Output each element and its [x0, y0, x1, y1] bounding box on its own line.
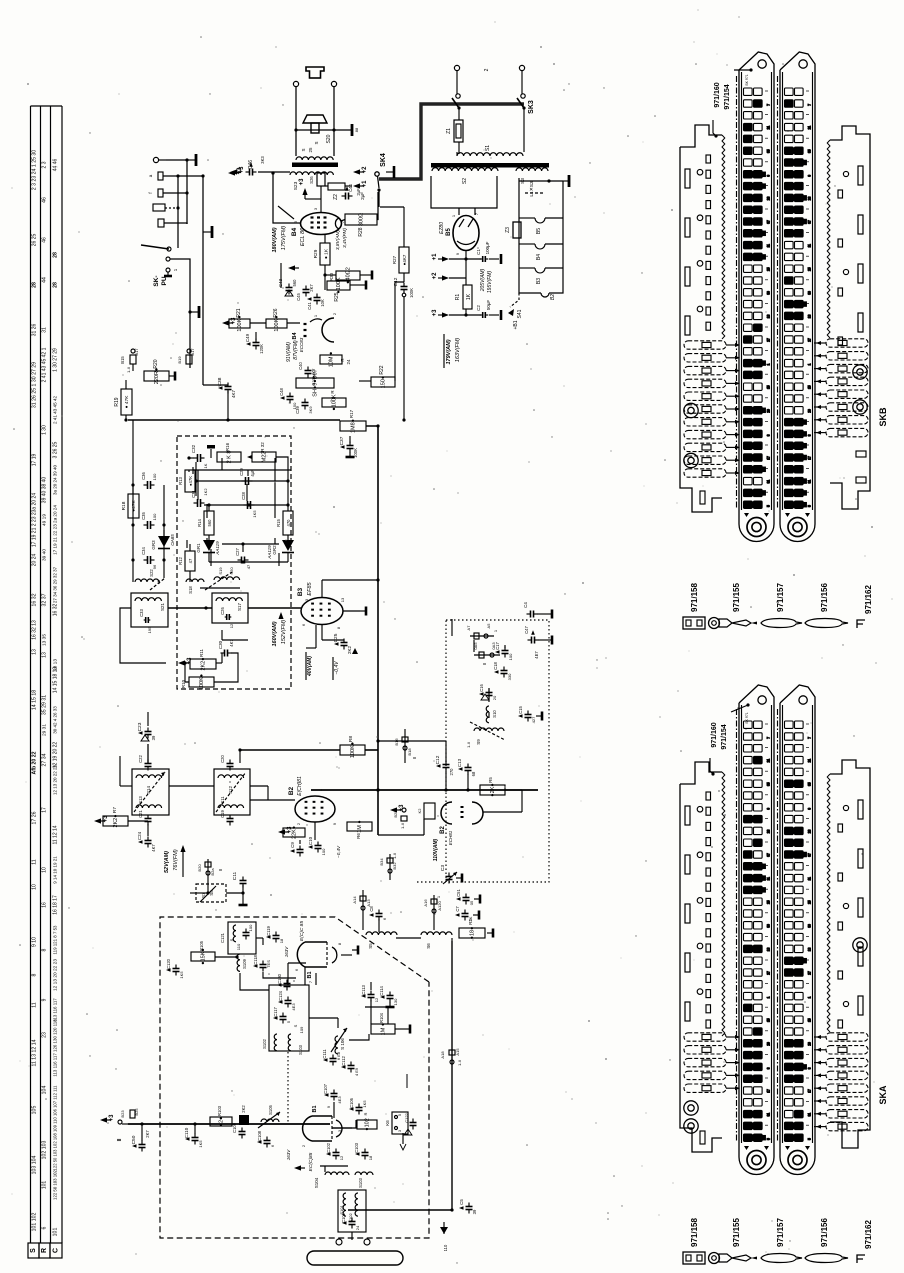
svg-text:3,4V(FM): 3,4V(FM): [342, 228, 348, 248]
svg-text:C37: C37: [339, 436, 345, 445]
svg-text:L1✕S3: L1✕S3: [529, 181, 535, 197]
coil S106 tuning: [335, 1036, 338, 1054]
ground: [443, 1222, 445, 1234]
svg-text:7: 7: [767, 104, 771, 106]
svg-text:195V(FM): 195V(FM): [487, 271, 493, 294]
svg-text:R11: R11: [199, 649, 204, 657]
svg-text:37: 37: [808, 853, 812, 857]
svg-text:150●: 150●: [381, 376, 387, 389]
capacitor C1 100uF: [482, 256, 484, 262]
svg-text:● 1K: ● 1K: [324, 248, 330, 259]
wire: [321, 624, 323, 640]
svg-text:39: 39: [808, 291, 812, 295]
svg-text:17: 17: [767, 456, 771, 460]
svg-text:ECH81: ECH81: [448, 830, 453, 845]
svg-text:M22: M22: [262, 452, 268, 463]
svg-text:+1: +1: [432, 253, 438, 261]
svg-text:8: 8: [32, 973, 38, 976]
svg-text:●102: ●102: [365, 1118, 371, 1131]
svg-text:C1: C1: [476, 249, 481, 255]
SKA left plate lower slots: [700, 1131, 705, 1144]
capacitor C111 6E8: [330, 1058, 337, 1060]
svg-text:S9: S9: [476, 739, 481, 745]
wire B1a grid down: [304, 967, 306, 985]
svg-text:R30: R30: [329, 272, 334, 281]
wire IF link: [169, 785, 214, 787]
svg-text:119 121 8 7 53: 119 121 8 7 53: [53, 925, 58, 955]
node S column label box: [28, 1243, 39, 1258]
svg-text:21: 21: [767, 759, 771, 763]
SKA right plate slots: [858, 800, 863, 819]
capacitor C113 12: [368, 994, 375, 996]
SKB left plate pins: [706, 155, 711, 163]
svg-text:C35: C35: [141, 511, 146, 519]
arrow +2 supply: [442, 275, 449, 280]
capacitor C108 6: [264, 1140, 271, 1142]
wire R105 to S109: [215, 956, 237, 958]
wire B3 screen up: [321, 580, 323, 597]
svg-text:●2●: ●2●: [219, 1117, 225, 1127]
capacitor C120 1K5: [173, 968, 180, 970]
SKB right plate slots: [858, 166, 863, 185]
svg-text:1-II: 1-II: [126, 367, 131, 373]
pin A14 A13: [362, 890, 364, 916]
svg-text:12 19 20 22: 12 19 20 22: [53, 742, 59, 769]
wire 180V feed diagonal: [278, 206, 294, 219]
svg-text:S103: S103: [298, 1044, 303, 1054]
resistor R27b 4K7: [399, 247, 409, 273]
svg-text:1-II: 1-II: [457, 1060, 462, 1066]
capacitor C37 100K: [347, 445, 354, 447]
tube B3 EF85: [301, 598, 343, 625]
capacitor C15: [525, 714, 532, 716]
arrow +1 tap: [353, 183, 360, 188]
SKA right plate ring terminal: [853, 938, 867, 952]
wire heavy mains run: [379, 104, 524, 179]
svg-text:220R●: 220R●: [154, 368, 160, 384]
capacitor C50: [139, 1144, 146, 1146]
SKA right plate solder lugs: [826, 1033, 868, 1041]
svg-text:● 47K: ● 47K: [124, 395, 130, 409]
ground small bar: [207, 445, 215, 449]
svg-text:39 40: 39 40: [42, 549, 48, 561]
svg-text:GR3: GR3: [151, 540, 156, 550]
speaker cone: [303, 115, 327, 123]
svg-text:Z2: Z2: [333, 194, 339, 200]
wire main left bus: [202, 176, 204, 385]
svg-text:C36: C36: [141, 471, 146, 479]
wire C27 link: [242, 544, 244, 552]
svg-text:+3: +3: [239, 166, 245, 174]
capacitor C102 12: [333, 1152, 340, 1154]
SKB right plate ring terminal: [853, 365, 867, 379]
svg-text:5: 5: [767, 505, 771, 507]
SKA strip B top hole: [799, 696, 807, 704]
wire A16 coil: [433, 918, 435, 930]
svg-text:52V(AM): 52V(AM): [164, 851, 170, 873]
resistor R14 560: [204, 511, 214, 535]
svg-text:23: 23: [767, 829, 771, 833]
resistor R19 47K: [121, 389, 132, 415]
wire detector rail top: [193, 469, 291, 471]
svg-text:C34: C34: [141, 546, 146, 554]
svg-text:R25: R25: [334, 292, 340, 301]
svg-text:3: 3: [808, 1067, 812, 1069]
svg-text:R104: R104: [379, 1012, 384, 1023]
svg-text:11 12 14: 11 12 14: [53, 825, 59, 844]
svg-text:12: 12: [374, 997, 379, 1002]
svg-text:1M8●: 1M8●: [351, 419, 357, 433]
arrow +B1: [508, 309, 514, 316]
svg-text:EC(C)85: EC(C)85: [308, 1152, 314, 1171]
svg-text:Z3: Z3: [505, 227, 511, 233]
svg-text:S14: S14: [146, 786, 151, 795]
SKB left plate ring terminal: [684, 403, 698, 417]
capacitor C42: [401, 286, 408, 288]
svg-text:ECC83: ECC83: [299, 337, 304, 352]
svg-text:C111: C111: [322, 1049, 327, 1059]
svg-text:9 10: 9 10: [32, 937, 38, 947]
svg-text:3 26 25: 3 26 25: [53, 441, 59, 458]
svg-text:C27: C27: [235, 547, 240, 555]
svg-text:1-II: 1-II: [466, 742, 471, 748]
resistor R15 470: [283, 511, 293, 535]
svg-text:101: 101: [42, 1181, 48, 1190]
svg-text:101 102: 101 102: [32, 1213, 38, 1232]
svg-text:470: 470: [286, 519, 291, 527]
svg-text:1-II: 1-II: [400, 823, 405, 829]
capacitor C16 20: [486, 692, 493, 694]
wire +3 feed: [320, 186, 322, 212]
wire B1a cathode to box: [315, 973, 317, 985]
svg-text:K6: K6: [385, 1120, 390, 1126]
svg-text:C7: C7: [455, 906, 460, 912]
ground: [169, 375, 175, 377]
SKA strip A bottom ring: [739, 1145, 774, 1175]
wire: [449, 314, 481, 316]
svg-text:1M ●: 1M ●: [381, 1023, 387, 1036]
svg-text:35: 35: [808, 782, 812, 786]
wire: [258, 171, 290, 173]
svg-text:17: 17: [42, 807, 48, 813]
svg-text:87V(FM): 87V(FM): [293, 340, 299, 360]
SKA strip B outline: [779, 703, 781, 1145]
svg-text:●18●: ●18●: [470, 927, 476, 940]
coil S110 C121: [228, 922, 256, 954]
resistor R8 100K box: [340, 745, 365, 755]
svg-text:35: 35: [808, 149, 812, 153]
svg-text:10: 10: [42, 867, 48, 873]
svg-text:5: 5: [398, 1114, 402, 1116]
svg-text:+3: +3: [399, 804, 405, 812]
svg-text:101: 101: [53, 1228, 59, 1237]
svg-text:S26: S26: [309, 176, 314, 184]
svg-text:100: 100: [321, 848, 326, 855]
main tuning line: [128, 1123, 330, 1125]
node R column label box: [39, 1243, 50, 1258]
capacitor C107 4E3: [331, 1093, 338, 1095]
svg-text:1: 1: [808, 363, 812, 365]
svg-text:971/154: 971/154: [721, 724, 728, 749]
svg-text:29: 29: [767, 1042, 771, 1046]
wire B3 anode right: [343, 610, 360, 612]
wire rail 481: [196, 480, 288, 482]
svg-text:1K5: 1K5: [252, 510, 257, 518]
svg-text:R22: R22: [379, 365, 385, 374]
capacitor C40: [305, 370, 312, 372]
svg-text:C5: C5: [459, 1199, 464, 1205]
svg-text:15: 15: [808, 385, 812, 389]
node mains terminal: [454, 65, 459, 70]
svg-text:C29: C29: [239, 467, 244, 475]
wire S14 top to C23: [147, 744, 149, 763]
tube B4 triode section: [322, 318, 334, 342]
capacitor C101 24: [349, 1221, 356, 1223]
diode GR2 AA119: [287, 535, 289, 540]
resistor R27 box: [322, 398, 346, 407]
svg-text:S10: S10: [492, 710, 497, 718]
wire heater taps: [519, 217, 535, 219]
wire B4 cathode: [324, 234, 326, 243]
svg-text:22K●: 22K●: [292, 826, 298, 839]
svg-text:GR2: GR2: [272, 545, 277, 555]
dotted wire: [417, 881, 446, 883]
svg-text:C13: C13: [457, 758, 462, 767]
capacitor C22: [145, 763, 152, 765]
svg-text:1 30: 1 30: [42, 425, 48, 435]
svg-text:PU: PU: [161, 276, 168, 285]
SKA strip A outline: [738, 703, 740, 1145]
svg-text:−0,4V: −0,4V: [336, 845, 341, 858]
wire R14 GR1 chain: [206, 504, 208, 518]
wire: [523, 108, 525, 152]
svg-text:SKB: SKB: [878, 407, 888, 427]
svg-text:31: 31: [42, 327, 48, 333]
svg-text:10: 10: [32, 884, 38, 890]
svg-text:29 31: 29 31: [42, 724, 48, 736]
AM det left rail: [132, 485, 134, 582]
node aerial pin 4: [153, 204, 165, 211]
wire osc pins: [473, 640, 475, 652]
svg-text:7: 7: [808, 737, 812, 739]
resistor R102 box: [357, 1120, 377, 1129]
dial pointer pill: [307, 1251, 403, 1265]
coil S104 S103: [325, 1172, 349, 1175]
svg-text:11: 11: [767, 244, 771, 248]
pin B34 B32: [389, 854, 391, 880]
wire rail 562: [209, 561, 288, 563]
svg-text:C101: C101: [341, 1212, 346, 1223]
svg-text:S102: S102: [262, 1038, 267, 1048]
svg-text:175V(FM): 175V(FM): [281, 226, 287, 251]
svg-text:10K: 10K: [320, 299, 325, 307]
svg-text:18: 18: [368, 1155, 373, 1160]
svg-text:C3: C3: [440, 865, 446, 871]
capacitor C11: [240, 880, 247, 882]
svg-text:122 50 103 102: 122 50 103 102: [53, 1169, 58, 1199]
svg-text:C23: C23: [137, 722, 143, 731]
node speaker terminal right: [331, 81, 336, 86]
SKB right plate ring terminal: [853, 400, 867, 414]
resistor R29 1K: [320, 243, 330, 265]
SKA left plate pins: [706, 792, 711, 800]
svg-text:26 25: 26 25: [32, 234, 38, 247]
svg-text:+3: +3: [432, 309, 438, 317]
wire C12 bus up: [445, 741, 447, 762]
resistor R1 1K: [463, 285, 472, 309]
svg-text:560: 560: [292, 279, 297, 287]
svg-text:31 26: 31 26: [32, 324, 38, 337]
svg-text:3K3: 3K3: [260, 156, 265, 164]
svg-text:113 116 117 126 130 120 118: 113 116 117 126 130 120 118: [53, 1019, 58, 1077]
wire K6 to line: [397, 1124, 399, 1128]
svg-text:2 3 23 24 1 25 30: 2 3 23 24 1 25 30: [32, 150, 38, 190]
svg-text:OA85: OA85: [170, 534, 175, 546]
wire leader ska: [731, 705, 748, 712]
wire: [226, 892, 243, 894]
wire R15 GR2 chain: [274, 458, 276, 518]
svg-text:ECL 86: ECL 86: [300, 227, 306, 246]
capacitor C47 4E7: [531, 637, 533, 644]
svg-text:100: 100: [248, 924, 253, 931]
wire B3 cathode down: [315, 625, 317, 648]
label 52V pins B20: [207, 859, 209, 880]
svg-text:160V(AM): 160V(AM): [272, 621, 278, 646]
capacitor C124 4E3: [285, 1000, 292, 1002]
capacitor C49: [253, 342, 260, 344]
svg-text:16: 16: [42, 902, 48, 908]
diode network R23: [296, 378, 334, 388]
svg-text:17 19 21 22 23 2a 20 24: 17 19 21 22 23 2a 20 24: [53, 505, 58, 555]
SKB strip A bottom ring: [739, 512, 774, 542]
pin A16 A120: [433, 895, 435, 918]
SKA strip A contact cells: [744, 721, 771, 1141]
SKB left plate ring terminal: [684, 453, 698, 467]
svg-text:13: 13: [32, 649, 38, 655]
capacitor C12 270: [443, 764, 450, 766]
svg-text:B18: B18: [407, 748, 412, 756]
wire R12 top: [189, 544, 191, 551]
arrow +3 up: [302, 188, 307, 195]
svg-text:C117: C117: [273, 1006, 278, 1016]
wire det right rail: [276, 457, 288, 481]
svg-text:AA119: AA119: [267, 545, 272, 560]
svg-text:5: 5: [808, 505, 812, 507]
svg-text:971/156: 971/156: [820, 1218, 829, 1247]
svg-text:14 15 18: 14 15 18: [32, 690, 38, 710]
svg-text:12: 12: [229, 623, 234, 628]
svg-text:R: R: [363, 1112, 368, 1115]
svg-text:C113: C113: [361, 984, 366, 994]
svg-text:3: 3: [767, 434, 771, 436]
capacitor C48 150: [287, 396, 294, 398]
capacitor C25 2K2: [341, 642, 348, 644]
svg-text:3K9: 3K9: [308, 406, 313, 414]
resistor Z2: [328, 183, 345, 190]
svg-text:971/162: 971/162: [864, 1220, 873, 1249]
svg-text:1K5: 1K5: [362, 1100, 367, 1108]
svg-text:2 K 8: 2 K 8: [227, 451, 233, 464]
svg-text:C130: C130: [277, 973, 282, 984]
svg-text:27: 27: [767, 338, 771, 342]
wire: [165, 207, 178, 209]
svg-text:R20: R20: [153, 359, 159, 368]
svg-text:R8: R8: [348, 736, 354, 742]
svg-text:SKA: SKA: [878, 1085, 888, 1105]
capacitor C29 4uF: [245, 477, 247, 485]
svg-text:C26: C26: [220, 606, 225, 614]
svg-text:C9: C9: [290, 842, 295, 848]
svg-text:100K: 100K: [409, 288, 414, 298]
svg-text:30 42 4 26 33: 30 42 4 26 33: [53, 706, 58, 734]
svg-text:100K●: 100K●: [199, 674, 205, 690]
svg-text:17: 17: [767, 1089, 771, 1093]
wire B2 to S12 box: [250, 799, 268, 801]
wire: [164, 223, 187, 224]
SKA strip B hinge line: [777, 709, 779, 1141]
tube B2 ECH81 heptode: [295, 796, 335, 822]
svg-text:2K2●: 2K2●: [201, 657, 207, 670]
resistor R21 100K: [229, 319, 250, 328]
svg-text:R6: R6: [356, 833, 361, 839]
tube B1 ECC85 half a: [297, 942, 305, 967]
svg-text:A7: A7: [466, 625, 471, 631]
svg-text:17: 17: [808, 1089, 812, 1093]
wire osc box to C4: [451, 619, 453, 636]
wire speaker line: [296, 129, 352, 131]
SKB left plate slots: [685, 169, 690, 188]
svg-text:C2: C2: [476, 305, 481, 311]
resistor R12 47: [185, 551, 195, 571]
SKB strip B contact cells: [785, 88, 812, 508]
svg-text:E(CH)81: E(CH)81: [297, 776, 303, 796]
wire rectifier output: [465, 250, 467, 259]
svg-text:18 13: 18 13: [53, 659, 59, 671]
svg-text:9: 9: [808, 175, 812, 177]
resistor R16 2K8: [217, 452, 241, 462]
coil S25 output transformer secondary: [296, 157, 333, 160]
svg-text:163V: 163V: [284, 946, 289, 958]
svg-text:91V(AM): 91V(AM): [286, 342, 292, 362]
svg-text:E(C)C 85: E(C)C 85: [299, 921, 305, 941]
svg-text:17: 17: [808, 456, 812, 460]
svg-text:100μF: 100μF: [485, 241, 490, 254]
arrow +1 supply: [442, 256, 449, 261]
svg-text:K2: K2: [417, 808, 422, 814]
wire S109 to S103 box: [240, 973, 269, 990]
capacitor C23 39: [145, 731, 152, 733]
wire: [163, 175, 203, 177]
svg-text:25: 25: [767, 900, 771, 904]
wire: [359, 380, 371, 382]
svg-text:+3: +3: [109, 1114, 115, 1122]
svg-text:40V(AM): 40V(AM): [307, 656, 313, 677]
svg-text:971/158: 971/158: [690, 583, 699, 612]
svg-text:C22: C22: [138, 754, 143, 762]
capacitor C119 18: [273, 935, 280, 937]
capacitor C45: [303, 289, 310, 291]
svg-text:9: 9: [808, 808, 812, 810]
svg-text:C121: C121: [220, 932, 225, 943]
wire bus to B2 triode: [378, 834, 424, 836]
wire: [147, 712, 149, 726]
wire S21 to left: [120, 608, 166, 663]
wire C113 G: [370, 982, 372, 990]
ground: [190, 311, 199, 313]
svg-text:7: 7: [767, 737, 771, 739]
wire: [177, 176, 179, 248]
svg-text:16 18 17: 16 18 17: [53, 895, 59, 915]
